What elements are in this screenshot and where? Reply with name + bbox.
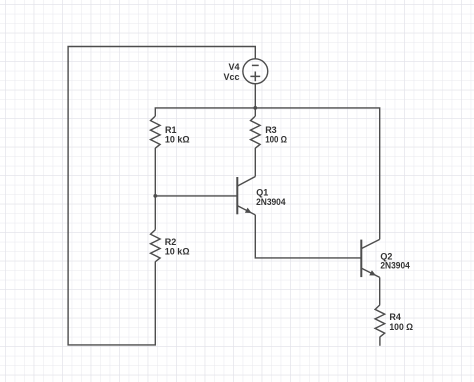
svg-text:V4: V4 [228,62,239,72]
svg-text:10 kΩ: 10 kΩ [165,135,190,145]
svg-text:Vcc: Vcc [223,72,239,82]
svg-text:R3: R3 [265,125,277,135]
svg-text:2N3904: 2N3904 [380,261,409,271]
svg-text:100 Ω: 100 Ω [265,135,287,145]
svg-text:R4: R4 [389,312,401,322]
svg-text:100 Ω: 100 Ω [389,322,413,332]
svg-text:2N3904: 2N3904 [256,197,285,207]
svg-text:R2: R2 [165,237,177,247]
svg-text:R1: R1 [165,125,177,135]
svg-text:10 kΩ: 10 kΩ [165,247,190,257]
